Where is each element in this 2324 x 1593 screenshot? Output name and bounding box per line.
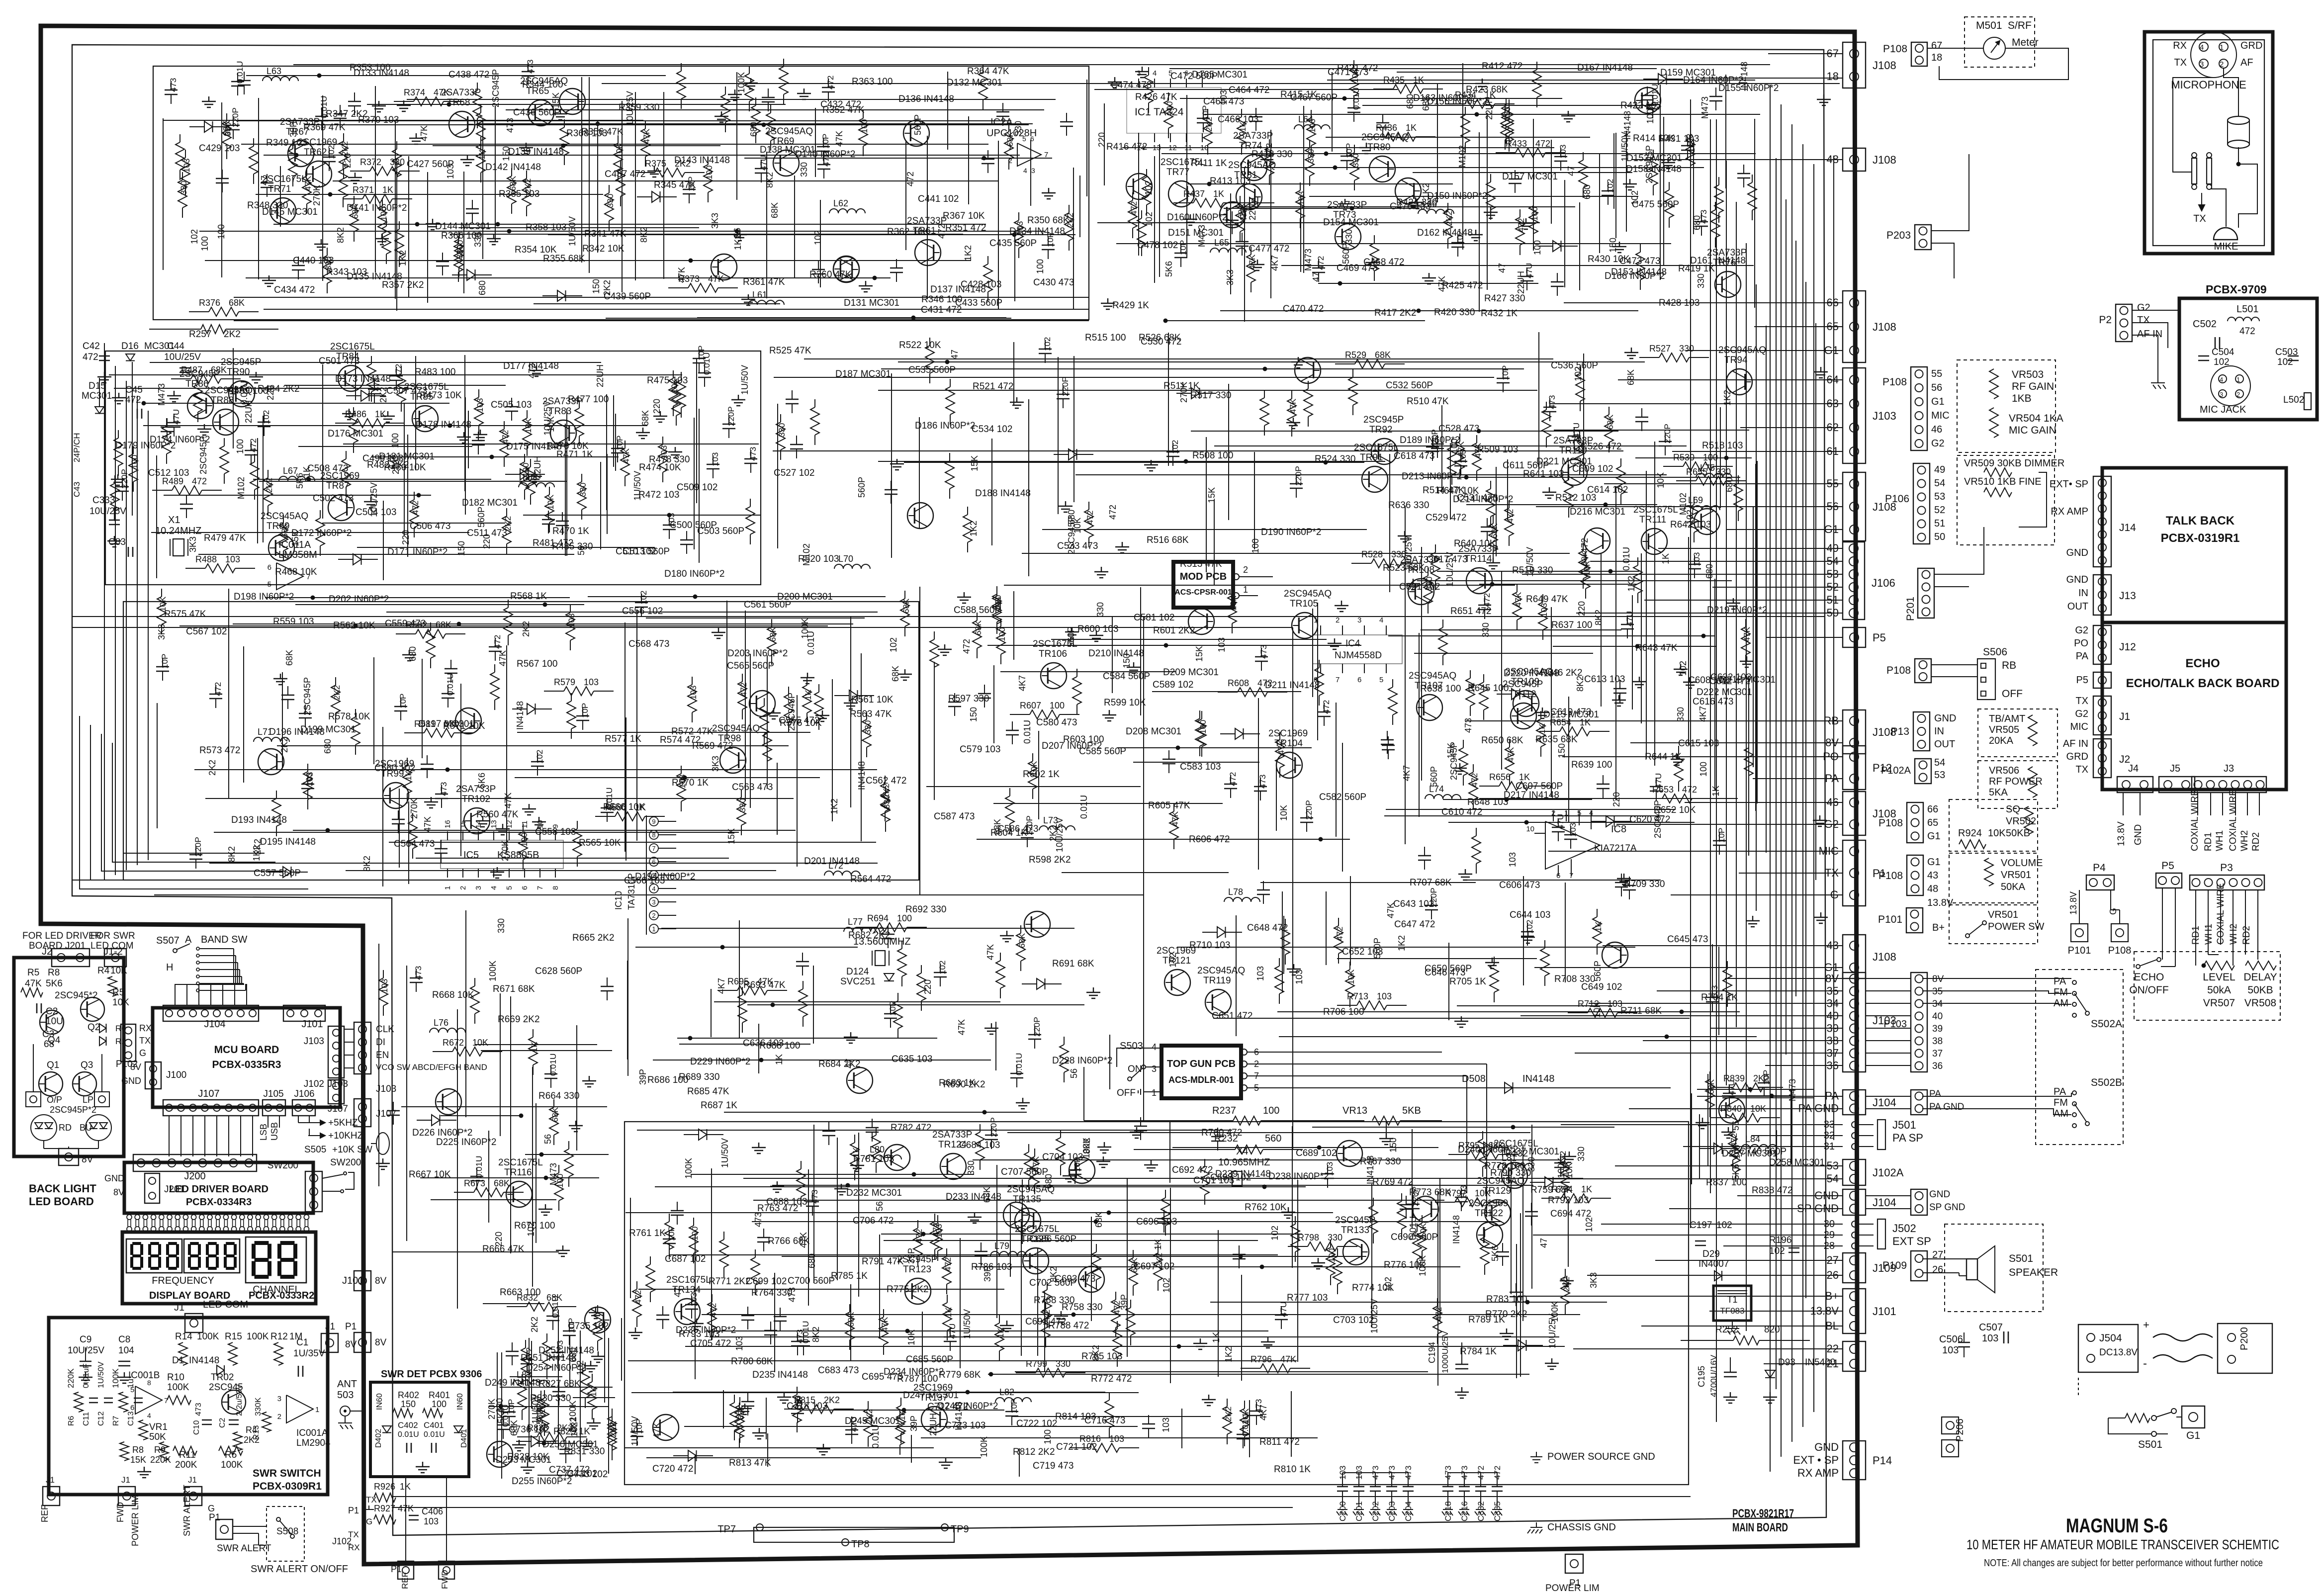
svg-text:D179 IN60P*2: D179 IN60P*2: [115, 441, 176, 451]
resistor R440 472: [118, 430, 119, 438]
svg-text:R831 330: R831 330: [564, 1446, 605, 1457]
svg-text:J102A: J102A: [1873, 1166, 1904, 1179]
S503 wires: [1146, 1066, 1162, 1067]
svg-text:R706 100: R706 100: [1323, 1007, 1364, 1017]
junction: [846, 1183, 850, 1188]
junction: [354, 624, 358, 628]
resistor R305 2K2: [343, 133, 344, 141]
svg-text:C687 102: C687 102: [665, 1254, 706, 1264]
ground: [372, 101, 386, 112]
back light led board box: [14, 958, 124, 1156]
svg-text:472: 472: [1535, 139, 1550, 149]
svg-text:R508 100: R508 100: [1192, 450, 1233, 461]
svg-text:C12: C12: [97, 1412, 105, 1426]
ground: [1010, 397, 1024, 408]
svg-text:TR106: TR106: [1039, 649, 1067, 659]
wire: [707, 1330, 1268, 1331]
resistor R317 330: [609, 185, 610, 193]
wire: [253, 479, 491, 480]
svg-text:472: 472: [192, 476, 207, 486]
svg-text:TR133: TR133: [1341, 1225, 1369, 1236]
resistor R620 330: [1637, 557, 1638, 565]
capacitor C548 0.01U: [607, 799, 608, 808]
resistor R496 47K: [1580, 365, 1581, 373]
svg-text:DI: DI: [376, 1037, 385, 1048]
svg-text:43: 43: [1927, 870, 1938, 881]
svg-text:GND: GND: [121, 1076, 141, 1086]
svg-text:1K2: 1K2: [1722, 390, 1732, 406]
ground: [348, 173, 362, 183]
svg-text:330: 330: [606, 194, 615, 208]
svg-text:C622 103: C622 103: [1710, 672, 1751, 683]
resistor R527 330: [1639, 357, 1659, 358]
svg-text:53: 53: [1934, 770, 1945, 781]
resistor R700 10K: [1544, 940, 1545, 948]
wire: [1714, 579, 1715, 791]
svg-text:47K: 47K: [880, 1317, 890, 1332]
resistor R678 100: [921, 965, 922, 973]
inductor L73: [1039, 826, 1075, 830]
svg-text:2SC945P: 2SC945P: [491, 69, 501, 107]
svg-text:R603 100: R603 100: [1063, 734, 1104, 745]
wire: [1583, 354, 1584, 477]
svg-text:100: 100: [390, 433, 400, 448]
resistor R376 68K: [189, 311, 209, 312]
resistor R465 103: [662, 437, 663, 444]
connector J103 64-61: [1843, 368, 1866, 463]
wire: [1388, 635, 1715, 636]
svg-text:C507 473: C507 473: [386, 386, 427, 396]
svg-text:3: 3: [1357, 616, 1361, 624]
connector J102A 53-54: [1843, 1159, 1866, 1185]
resistor R697 472: [1338, 918, 1339, 926]
svg-text:102: 102: [889, 637, 898, 652]
svg-text:C502 473: C502 473: [313, 493, 354, 504]
svg-text:8K2: 8K2: [1594, 610, 1604, 625]
svg-text:2SC945P: 2SC945P: [1335, 1215, 1375, 1226]
resistor R381 472: [1132, 192, 1133, 200]
wire: [1693, 139, 1694, 234]
svg-text:L77: L77: [848, 917, 863, 927]
meter connector P108: [1911, 42, 1927, 66]
svg-text:R927: R927: [374, 1504, 395, 1513]
wire: [711, 989, 712, 1037]
capacitor C520 103: [796, 436, 797, 444]
svg-text:5K6: 5K6: [46, 978, 63, 989]
svg-text:D228 IN60P*2: D228 IN60P*2: [1052, 1056, 1112, 1066]
capacitor C546 102: [537, 753, 538, 762]
svg-text:100: 100: [130, 455, 139, 469]
svg-text:R671 68K: R671 68K: [493, 984, 535, 994]
svg-text:47K: 47K: [834, 131, 844, 147]
svg-text:WH1: WH1: [2215, 830, 2225, 851]
svg-text:C696 103: C696 103: [1136, 1217, 1177, 1227]
svg-text:560P: 560P: [476, 507, 486, 528]
ground: [1535, 708, 1549, 718]
svg-text:2K2: 2K2: [530, 1317, 539, 1332]
ECHO board box: [2102, 622, 2286, 790]
ground: [1000, 931, 1014, 942]
svg-text:10P: 10P: [160, 654, 170, 669]
svg-text:IN4148: IN4148: [954, 1402, 964, 1430]
ground: [530, 365, 543, 376]
svg-text:IN60: IN60: [456, 1393, 464, 1410]
wire: [1350, 876, 1351, 966]
svg-text:D253 MC301: D253 MC301: [496, 1455, 551, 1465]
diode R6: [99, 1024, 106, 1033]
svg-text:J2: J2: [42, 946, 52, 957]
svg-text:C606 473: C606 473: [1499, 880, 1540, 890]
diode D224: [1591, 821, 1606, 822]
wire: [1448, 822, 1695, 823]
wire: [1601, 554, 1602, 707]
svg-text:MIC JACK: MIC JACK: [2200, 404, 2246, 415]
resistor R585 10K: [1232, 588, 1233, 596]
capacitor C631 10P: [890, 1005, 891, 1014]
wire: [750, 654, 751, 808]
svg-text:1U/50V: 1U/50V: [1620, 132, 1630, 162]
svg-text:503: 503: [337, 1390, 354, 1401]
switch S508 dashed box: [267, 1506, 304, 1561]
svg-text:GRD: GRD: [2066, 751, 2088, 762]
svg-text:C335: C335: [1493, 1501, 1502, 1521]
svg-text:C204: C204: [1404, 1501, 1413, 1521]
svg-text:3: 3: [1031, 167, 1035, 175]
svg-text:103: 103: [1982, 1333, 1998, 1344]
svg-text:R362 10K: R362 10K: [887, 227, 929, 237]
svg-text:R426 47K: R426 47K: [1135, 92, 1177, 102]
meter M501 S/RF dashed box: [1965, 17, 2035, 67]
svg-text:R597 330: R597 330: [948, 694, 989, 704]
capacitor C590 472: [1484, 596, 1485, 605]
wire: [1466, 720, 1756, 721]
svg-text:L78: L78: [1228, 887, 1243, 897]
svg-text:P203: P203: [1886, 230, 1911, 241]
svg-text:100: 100: [1165, 101, 1174, 115]
svg-text:R363 100: R363 100: [852, 77, 893, 87]
svg-text:4: 4: [1153, 69, 1157, 78]
svg-text:270K: 270K: [487, 1399, 497, 1419]
svg-text:7: 7: [536, 886, 544, 890]
svg-text:10U/25V: 10U/25V: [1404, 536, 1414, 571]
resistor R580 1K: [595, 816, 615, 817]
transistor TR116: [506, 1181, 532, 1207]
svg-text:103: 103: [689, 686, 698, 700]
resistor R302 103: [620, 161, 621, 169]
wire: [465, 910, 466, 1117]
wire: [395, 121, 396, 299]
capacitor C637 102: [1527, 923, 1528, 932]
ground: [532, 817, 546, 828]
svg-text:472: 472: [2239, 326, 2255, 337]
svg-text:472: 472: [962, 639, 972, 654]
wire: [832, 679, 833, 821]
block outline IF section: [123, 602, 919, 880]
junction: [873, 276, 877, 280]
svg-text:GRD: GRD: [2240, 40, 2262, 51]
junction: [1176, 746, 1180, 750]
wire: [1159, 144, 1160, 277]
ground: [1683, 677, 1697, 688]
wire: [401, 1106, 607, 1107]
svg-text:330: 330: [738, 798, 747, 812]
resistor R400 1K: [1715, 202, 1716, 210]
svg-text:10U/25V: 10U/25V: [625, 91, 635, 126]
svg-text:473: 473: [810, 1190, 819, 1204]
wire: [1448, 943, 1449, 1020]
svg-text:102: 102: [1383, 1277, 1393, 1292]
resistor R656 1K: [1479, 786, 1499, 787]
capacitor C570 472: [1324, 703, 1325, 712]
capacitor C460 103: [1557, 273, 1558, 282]
resistor R617 472: [1483, 674, 1484, 682]
svg-text:C202: C202: [1371, 1501, 1380, 1521]
svg-text:D211 IN4148: D211 IN4148: [1265, 680, 1320, 691]
resistor R389 1K: [1509, 106, 1510, 114]
svg-text:472: 472: [1257, 678, 1272, 688]
resistor R544 100: [523, 824, 524, 832]
svg-text:TX: TX: [2075, 696, 2088, 707]
svg-text:330: 330: [578, 483, 588, 497]
svg-text:47U: 47U: [759, 155, 768, 171]
svg-text:R691 68K: R691 68K: [1052, 959, 1094, 969]
wire: [295, 604, 584, 605]
wire: [1725, 75, 1726, 188]
capacitor C447 102: [1515, 170, 1516, 179]
wire lower rails: [154, 894, 1144, 895]
capacitor C603 103: [1460, 452, 1461, 461]
svg-text:103: 103: [1692, 552, 1701, 566]
ground: [1101, 298, 1115, 309]
diode D230: [1022, 983, 1037, 984]
resistor R374 47K: [394, 101, 414, 102]
resistor R316 330: [458, 236, 459, 244]
svg-text:J103: J103: [1873, 410, 1896, 422]
ground: [984, 1023, 998, 1034]
svg-text:220: 220: [401, 530, 411, 545]
junction: [1317, 1146, 1322, 1150]
svg-text:8V: 8V: [82, 1154, 93, 1165]
svg-text:C689 102: C689 102: [1296, 1148, 1337, 1158]
svg-text:R813 47K: R813 47K: [729, 1458, 771, 1468]
wire: [677, 1038, 937, 1039]
svg-text:R838 472: R838 472: [1752, 1185, 1792, 1196]
wires P3 to pots: [2195, 890, 2196, 945]
svg-text:SPEAKER: SPEAKER: [2009, 1267, 2058, 1278]
wire: [1718, 947, 1719, 1035]
SWR det board box: [370, 1382, 469, 1477]
svg-text:SWR ALERT: SWR ALERT: [182, 1485, 192, 1536]
svg-text:J4: J4: [2128, 763, 2139, 774]
svg-text:J106: J106: [1872, 577, 1895, 589]
svg-text:R649 47K: R649 47K: [1526, 594, 1568, 605]
capacitor C493 102: [264, 413, 265, 422]
svg-text:R816: R816: [1079, 1434, 1101, 1444]
wire: [815, 108, 816, 177]
wire: [1568, 697, 1569, 822]
svg-text:5K6: 5K6: [477, 773, 487, 789]
transistor TR110: [1561, 459, 1587, 485]
svg-text:220: 220: [266, 385, 275, 400]
svg-text:L71: L71: [258, 727, 272, 737]
svg-text:100: 100: [1698, 762, 1708, 777]
transistor TR105: [1292, 613, 1318, 638]
svg-text:1U/50V: 1U/50V: [962, 1309, 972, 1339]
svg-text:B+: B+: [1932, 922, 1945, 933]
svg-text:270K: 270K: [312, 185, 322, 206]
resistor R435 1K: [1373, 88, 1393, 89]
PTT arrow: [2201, 193, 2202, 208]
resistor R446 1K: [579, 400, 580, 408]
resistor R459 68K: [166, 418, 167, 426]
svg-text:C568 473: C568 473: [628, 639, 669, 649]
svg-text:103: 103: [934, 1224, 944, 1238]
wire: [813, 966, 814, 1044]
svg-text:C528 473: C528 473: [1438, 424, 1479, 434]
svg-text:R707 68K: R707 68K: [1410, 878, 1452, 888]
wire: [164, 120, 643, 121]
svg-text:R402: R402: [398, 1390, 419, 1400]
resistor R696 1K: [1597, 909, 1598, 917]
wire: [392, 1251, 559, 1252]
wire: [1104, 103, 1105, 185]
svg-text:PA SP: PA SP: [1892, 1132, 1923, 1144]
junction: [294, 153, 299, 158]
svg-text:150: 150: [969, 707, 979, 722]
svg-text:473: 473: [526, 60, 535, 74]
junction: [1342, 96, 1347, 101]
junction: [1207, 182, 1212, 186]
svg-text:10P: 10P: [888, 1001, 897, 1016]
resistor R633 472: [1509, 500, 1510, 508]
svg-text:FM: FM: [2054, 987, 2068, 998]
diode D231: [1202, 932, 1217, 933]
svg-text:M473: M473: [1700, 96, 1710, 119]
svg-text:100: 100: [1035, 259, 1045, 274]
svg-text:J501: J501: [1892, 1119, 1916, 1131]
wire bottom rails: [392, 1496, 1691, 1497]
resistor R309 68K: [179, 134, 180, 142]
wire: [747, 1004, 1084, 1005]
svg-text:68K: 68K: [770, 202, 780, 218]
capacitor C522 47U: [1574, 427, 1575, 436]
svg-text:10K: 10K: [1229, 595, 1238, 611]
junction: [759, 1058, 764, 1062]
transistor TR86: [187, 393, 213, 419]
diode D149: [189, 126, 204, 127]
svg-text:1K: 1K: [1711, 786, 1721, 796]
capacitor C593 473: [1603, 775, 1604, 784]
svg-text:PA: PA: [2054, 976, 2066, 987]
transistor Q4: [40, 1010, 64, 1034]
wire: [241, 144, 988, 145]
svg-text:LED BOARD: LED BOARD: [29, 1195, 94, 1208]
capacitor C498 103: [669, 516, 670, 525]
svg-text:M102: M102: [1678, 493, 1688, 515]
wires below J3: [2123, 793, 2124, 815]
ground: [1094, 567, 1108, 578]
svg-text:100K: 100K: [247, 1331, 269, 1342]
svg-text:VR507: VR507: [2203, 997, 2235, 1009]
wire: [450, 234, 963, 235]
svg-text:0.01U: 0.01U: [474, 1156, 484, 1178]
svg-text:103: 103: [1558, 145, 1568, 159]
svg-text:G1: G1: [2186, 1430, 2200, 1441]
wire: [1423, 477, 1740, 478]
svg-text:680: 680: [1724, 477, 1734, 492]
svg-text:2SC1675L: 2SC1675L: [498, 1157, 543, 1168]
svg-text:0.01U: 0.01U: [424, 1430, 445, 1439]
resistor R387 330: [1309, 140, 1310, 148]
wire: [1220, 310, 1638, 311]
wire: [726, 601, 727, 739]
svg-text:330: 330: [444, 719, 459, 729]
wire: [881, 368, 1524, 369]
svg-text:R779 68K: R779 68K: [939, 1370, 981, 1380]
svg-text:R582: R582: [406, 620, 427, 630]
svg-text:39P: 39P: [909, 1416, 919, 1431]
resistor R323 472: [564, 119, 565, 127]
diode D148: [542, 295, 557, 296]
svg-text:R771 2K2: R771 2K2: [709, 1276, 751, 1287]
resistor R337 330: [182, 172, 183, 180]
svg-text:2SC945AQ: 2SC945AQ: [1228, 160, 1276, 171]
capacitor C632 102: [940, 964, 941, 973]
svg-text:100: 100: [235, 439, 245, 454]
svg-text:MIKE: MIKE: [2214, 241, 2238, 252]
band switch wires down to J104: [175, 949, 234, 1005]
svg-text:C587 473: C587 473: [934, 811, 975, 822]
svg-text:R570 1K: R570 1K: [672, 778, 709, 788]
ground: [1086, 987, 1100, 998]
resistor R405 10K: [1353, 60, 1354, 68]
resistor R467 330: [750, 499, 751, 507]
svg-text:+: +: [2143, 1319, 2149, 1331]
svg-text:5KA: 5KA: [1989, 787, 2008, 798]
resistor R535 330: [741, 790, 742, 797]
svg-text:R351 472: R351 472: [945, 223, 986, 233]
resistor R397 1K: [1241, 109, 1242, 117]
wire: [1213, 1018, 1690, 1019]
svg-text:D132 MC301: D132 MC301: [947, 78, 1002, 88]
wire P203 leads: [1931, 154, 1969, 231]
svg-text:L74: L74: [1429, 784, 1444, 794]
resistor R507 472: [1088, 502, 1089, 510]
resistor R534 47K: [577, 821, 578, 829]
connector J13: [2093, 575, 2111, 615]
svg-text:R559 103: R559 103: [273, 617, 314, 627]
svg-text:C584 560P: C584 560P: [1103, 671, 1150, 682]
ground: [844, 1032, 858, 1043]
svg-text:D202 IN60P*2: D202 IN60P*2: [329, 594, 389, 605]
capacitor C422 10P: [1048, 236, 1049, 245]
wire: [1462, 63, 1463, 250]
svg-text:D508: D508: [1462, 1073, 1486, 1084]
svg-text:G2: G2: [2137, 302, 2150, 313]
svg-text:472: 472: [213, 682, 223, 696]
transistor TR69: [773, 150, 799, 176]
svg-text:13.8V: 13.8V: [2068, 891, 2078, 915]
svg-text:C508 473: C508 473: [307, 463, 348, 474]
svg-text:40: 40: [1932, 1011, 1943, 1022]
ground: [1291, 357, 1305, 368]
svg-text:IN5400: IN5400: [1805, 1357, 1835, 1368]
wire: [322, 95, 323, 281]
junction: [1239, 1254, 1243, 1259]
wires to S502: [1922, 978, 2071, 979]
resistor R538 103: [681, 766, 682, 774]
svg-text:47: 47: [1311, 272, 1321, 282]
